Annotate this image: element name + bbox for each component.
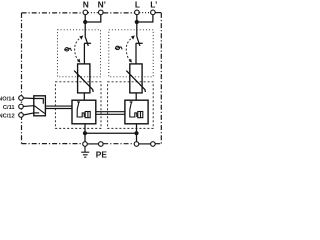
mechanical linkage K1 to K2 lower line [96, 113, 125, 115]
thermal symbol theta N path [65, 48, 69, 51]
varistor MOV1 diagonal [74, 71, 93, 92]
wire N down to disconnector [84, 15, 86, 37]
indicator K2 window [138, 112, 143, 118]
thermal disconnect dashed arc N path [75, 37, 83, 62]
terminal PE [83, 142, 88, 147]
wire terminal NO/14 lead [23, 97, 34, 100]
device border bottom dash-dot left segment [22, 143, 83, 145]
contact S1 NO branch [34, 99, 44, 104]
dotted enclosure upper left (N protection path) [58, 30, 101, 77]
node A junction dot (N) [83, 20, 87, 24]
terminal C/11 [19, 104, 24, 109]
wire indicator K2 to node D [136, 124, 138, 142]
device border bottom solid segment right pair [139, 143, 151, 145]
switch F2 contact tick [136, 42, 143, 44]
indicator K1 internal symbol [77, 102, 84, 117]
wire terminal NC/12 lead [23, 113, 34, 115]
varistor MOV2 diagonal [126, 71, 145, 92]
contact S1 changeover blade [34, 106, 44, 114]
svg-text:N’: N’ [98, 0, 106, 10]
terminal PE' right [151, 142, 156, 147]
ground symbol stem [84, 146, 86, 152]
switch F1 blade (N path thermal disconnector) [85, 37, 88, 46]
device border left dash-dot [21, 13, 23, 144]
device border top solid segment to corner [155, 12, 161, 14]
arrowhead at varistor MOV2 [129, 59, 132, 63]
svg-text:NO/14: NO/14 [0, 96, 15, 102]
arrowhead at varistor MOV1 [77, 59, 80, 63]
mechanical linkage K1 to K2 upper line [96, 111, 125, 113]
dashed enclosure lower right (indicator compartment L) [108, 82, 154, 129]
wire indicator K1 to node C [84, 124, 86, 142]
varistor MOV1 body [78, 64, 90, 93]
mechanical linkage S1 to K1 lower line [45, 108, 72, 110]
device border top dotted between L and L' [139, 12, 150, 14]
device border bottom dash-dot right corner segment [155, 143, 161, 145]
remote signalling contact box S1 [34, 96, 46, 116]
indicator K1 window [85, 112, 90, 118]
ground symbol bars [81, 152, 89, 157]
wire varistor MOV1 to indicator K1 [83, 93, 85, 100]
varistor MOV2 body [130, 64, 142, 93]
mechanical linkage S1 to K1 upper line [45, 105, 72, 107]
switch F2 blade (L path thermal disconnector) [137, 37, 140, 46]
wire switch F2 to varistor MOV2 [135, 43, 137, 64]
svg-text:N: N [83, 0, 89, 10]
terminal N' [99, 10, 104, 15]
node D junction dot (L to PE) [134, 131, 138, 135]
indicator K2 internal symbol [130, 102, 137, 117]
wire node C to node D (PE bus) [85, 132, 137, 134]
switch F1 contact tick [84, 42, 91, 44]
device border right dash-dot [160, 13, 162, 144]
svg-text:PE: PE [96, 150, 108, 160]
wire varistor MOV2 to indicator K2 [135, 93, 137, 100]
device border top dash-dot left segment [22, 12, 84, 14]
terminal PE' left [99, 142, 104, 147]
indicator K2 window flag [140, 112, 142, 118]
thermal symbol theta L path [116, 46, 120, 49]
thermal disconnect dashed arc L path [126, 37, 134, 62]
device border top dash-dot middle segment [103, 12, 134, 14]
wire terminal C/11 lead [23, 105, 34, 108]
svg-text:L’: L’ [150, 0, 157, 10]
wire L down to disconnector [136, 15, 138, 37]
indicator box K1 [72, 100, 96, 124]
wire L' drop and link to node B [137, 15, 153, 22]
wire switch F1 to varistor MOV1 [83, 43, 85, 64]
terminal L' [151, 10, 156, 15]
terminal N [83, 10, 88, 15]
arrowhead at switch F2 [131, 35, 135, 39]
device border bottom solid between PE and PE' [88, 143, 99, 145]
device border bottom dash-dot middle segment [103, 143, 134, 145]
arrowhead at switch F1 [79, 35, 83, 39]
node B junction dot (L) [135, 20, 139, 24]
terminal NO/14 [19, 96, 24, 101]
svg-text:L: L [135, 0, 140, 10]
svg-text:NC/12: NC/12 [0, 113, 15, 119]
terminal NC/12 [19, 113, 24, 118]
dashed enclosure lower left (indicator compartment N) [55, 82, 101, 129]
wire N' drop and link to node A [85, 15, 101, 22]
svg-text:C/11: C/11 [3, 105, 15, 111]
indicator K1 window flag [87, 112, 89, 118]
dotted enclosure upper right (L protection path) [109, 30, 153, 77]
indicator box K2 [125, 100, 148, 124]
device border top dotted between N and N' [88, 12, 98, 14]
terminal L [135, 10, 140, 15]
contact S1 NC branch [34, 112, 39, 114]
node C junction dot (N to PE) [83, 131, 87, 135]
terminal PE L-side [134, 142, 139, 147]
